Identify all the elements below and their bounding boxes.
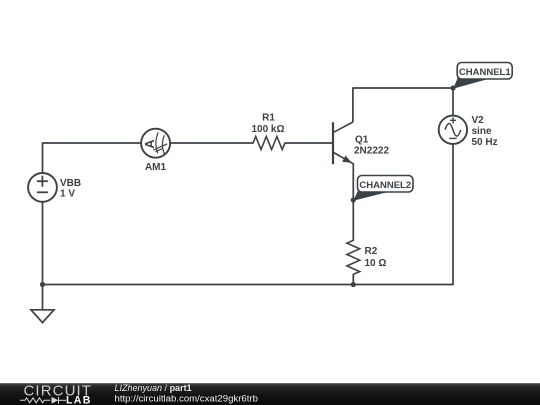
wire: node B down to R2 top <box>352 200 354 240</box>
svg-text:VBB: VBB <box>60 178 81 189</box>
node A junction dot <box>450 85 455 90</box>
CHANNEL2 flag box <box>358 176 414 193</box>
svg-text:http://circuitlab.com/cxat29gk: http://circuitlab.com/cxat29gkr6trb <box>115 394 258 405</box>
svg-text:R1: R1 <box>262 113 275 124</box>
node: R2 bottom junction dot <box>351 282 356 287</box>
wire: V2 bottom down to bottom rail <box>452 144 454 285</box>
svg-text:10 Ω: 10 Ω <box>365 258 387 269</box>
svg-text:V2: V2 <box>472 115 485 126</box>
svg-text:CHANNEL1: CHANNEL1 <box>459 67 511 78</box>
wire: R1 right to Q1 base <box>285 142 332 144</box>
svg-text:AM1: AM1 <box>145 162 167 173</box>
svg-text:A: A <box>142 139 157 149</box>
CircuitLab logo resistor-diode mark <box>20 397 66 404</box>
wire: node A down to V2 top <box>452 88 454 116</box>
voltage source VBB <box>28 173 57 202</box>
svg-text:CHANNEL2: CHANNEL2 <box>359 180 411 191</box>
wire: main rail VBB top to AM1 left <box>43 143 142 173</box>
svg-text:2N2222: 2N2222 <box>354 146 389 157</box>
voltage source V2 <box>439 116 467 144</box>
label Q1 2N2222 <box>354 135 389 157</box>
node: ground junction dot <box>40 282 45 287</box>
label VBB 1 V <box>60 178 81 200</box>
CHANNEL1 flag box <box>457 63 512 80</box>
wire: emitter vertical to node B <box>352 164 354 200</box>
svg-text:sine: sine <box>472 126 492 137</box>
label R1 100 kΩ <box>251 113 284 136</box>
svg-text:1 V: 1 V <box>60 189 75 200</box>
wire: AM1 right to R1 left <box>170 142 253 144</box>
CHANNEL2 flag tail <box>353 191 390 201</box>
wire: bottom rail <box>43 284 454 286</box>
transistor Q1 emitter arrow <box>342 156 352 163</box>
CHANNEL1 flag tail <box>453 78 490 89</box>
node B junction dot (CHANNEL2 tap) <box>351 197 356 202</box>
ground <box>31 310 54 323</box>
svg-text:Q1: Q1 <box>355 135 369 146</box>
footer bar <box>0 383 540 405</box>
wire: collector vertical + top rail to node A <box>353 88 453 122</box>
transistor Q1 2N2222 <box>333 122 353 164</box>
svg-text:50 Hz: 50 Hz <box>472 137 498 148</box>
ammeter AM1 <box>141 129 170 158</box>
wire: VBB bottom to ground <box>42 202 44 310</box>
CircuitLab logo diode triangle <box>52 397 59 404</box>
label V2 sine 50 Hz <box>472 115 498 148</box>
label R2 10 Ω <box>365 246 387 269</box>
svg-text:R2: R2 <box>365 246 378 257</box>
wire: R2 bottom stub <box>352 274 354 284</box>
resistor R2 <box>347 240 360 274</box>
svg-text:100 kΩ: 100 kΩ <box>251 124 284 135</box>
svg-text:LAB: LAB <box>66 395 92 405</box>
svg-text:LIZhenyuan / part1: LIZhenyuan / part1 <box>115 383 192 393</box>
resistor R1 <box>253 137 285 150</box>
